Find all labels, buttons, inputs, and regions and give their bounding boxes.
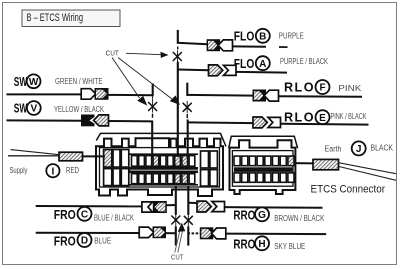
svg-text:CUT: CUT [171, 253, 184, 261]
tall pin right group bottom [201, 170, 209, 187]
left block small pins bottom row [132, 174, 195, 184]
right block inner outline [232, 151, 293, 187]
wire RLO F right segment [279, 95, 363, 98]
wire SW W right segment to vertical A [107, 94, 154, 96]
svg-text:PURPLE / BLACK: PURPLE / BLACK [280, 57, 329, 66]
svg-text:RRO: RRO [233, 209, 255, 223]
CUT pointer line pair to bottom X marks [175, 223, 186, 253]
wire FLO B right segment [233, 45, 267, 47]
tall pin [121, 150, 129, 168]
node FRO D label [54, 233, 92, 248]
svg-text:PURPLE: PURPLE [279, 31, 304, 40]
vertical wire B thin cut section [177, 50, 179, 62]
Supply input diagonal wire [11, 150, 59, 155]
svg-text:FLO: FLO [234, 29, 255, 43]
svg-text:CUT: CUT [106, 49, 120, 57]
svg-text:SW: SW [14, 102, 28, 116]
right block mid separator band [234, 167, 293, 172]
tall pin [113, 150, 120, 168]
wire RLO F left segment [187, 94, 254, 97]
node FLO A label [234, 56, 270, 71]
connector symbol SW W (white pentagon + black box with hatch arrow, pointing right) [81, 88, 108, 100]
Earth wire from connector [295, 162, 313, 164]
wire FRO D stub to vertical D [164, 232, 177, 234]
wire FRO D horizontal [36, 232, 140, 234]
left block lid line [96, 133, 226, 146]
tall pin lower row [113, 169, 120, 186]
ECU connector left block shell [96, 138, 223, 196]
svg-text:SKY BLUE: SKY BLUE [274, 242, 305, 251]
cut mark X on wire E [184, 216, 193, 225]
wire FLO A left segment [178, 69, 209, 72]
tall pin right group top [201, 151, 209, 168]
svg-text:B – ETCS Wiring: B – ETCS Wiring [27, 12, 84, 24]
right block pins bottom row [234, 173, 294, 182]
cut mark X on wire A [148, 102, 157, 111]
tall pin lower row [104, 169, 112, 186]
connector symbol FRO C (white bracket + black hatch box, pointing left) [142, 201, 167, 213]
cut mark X on wire B [173, 52, 182, 61]
node SW V label [14, 101, 41, 116]
node I label (RED) [46, 164, 59, 177]
svg-text:PINK / BLACK: PINK / BLACK [331, 112, 368, 121]
connector symbol RRO H (black hatch box + white pentagon, pointing left) [200, 227, 226, 239]
connector symbol RLO E (hatched pentagon + white bracket, pointing right) [253, 117, 281, 128]
wire from splice box to connector [83, 155, 106, 157]
right block pins top row [234, 156, 294, 166]
svg-text:RLO: RLO [284, 81, 314, 95]
node FLO B label [234, 29, 270, 44]
cut mark X on wire C [183, 103, 192, 112]
tall pin lower row [121, 169, 129, 186]
vertical wire B lower section into connector [177, 62, 179, 157]
tall pin right group bottom [210, 170, 218, 187]
tall pin right group top [210, 151, 218, 168]
vertical wire D lower section [175, 227, 177, 246]
wire FRO C horizontal [36, 205, 142, 207]
CUT pointer arrow to X on wire B [126, 52, 169, 58]
wire RLO E right segment [281, 123, 369, 126]
svg-text:GREEN / WHITE: GREEN / WHITE [55, 77, 103, 86]
svg-text:E: E [319, 113, 326, 124]
left block small pins top row [132, 156, 195, 167]
vertical wire E from connector [187, 186, 189, 215]
wire RRO H stub from vertical E [188, 232, 201, 234]
svg-text:RLO: RLO [284, 110, 314, 124]
node SW W label [14, 74, 41, 89]
vertical wire A dash below cut [152, 114, 154, 118]
node RLO E label [284, 110, 330, 124]
supply pin (hatched tall) [104, 150, 112, 168]
svg-text:FLO: FLO [234, 57, 255, 71]
wire SW V right segment to vertical A [107, 120, 153, 122]
vertical wire C thin cut section [186, 101, 188, 113]
vertical wire A thin cut section [152, 96, 154, 112]
vertical wire A upper stub [152, 83, 154, 96]
right block lid line [229, 136, 298, 148]
connector symbol FLO A (hatched pentagon + white bracket, pointing right) [209, 65, 237, 76]
svg-text:Earth: Earth [325, 144, 342, 153]
CUT pointer arrow to X on wire C [118, 58, 180, 105]
earth wire diagonal pair to border [339, 163, 397, 174]
svg-text:V: V [30, 104, 37, 115]
wire RRO H right segment [222, 233, 327, 236]
left block mid separator band [130, 167, 199, 173]
vertical wire A lower section into connector [151, 121, 153, 157]
svg-text:FRO: FRO [54, 208, 76, 222]
svg-text:J: J [356, 144, 362, 155]
node RRO H label [233, 236, 269, 251]
svg-text:RED: RED [66, 166, 79, 175]
svg-text:Supply: Supply [10, 166, 28, 175]
svg-text:I: I [52, 166, 55, 177]
svg-text:ETCS Connector: ETCS Connector [311, 183, 386, 195]
cut mark X on wire D [171, 216, 180, 225]
wire RRO G stub from vertical E [188, 202, 198, 204]
wire RLO E left segment [188, 121, 254, 124]
node RLO F label [284, 80, 330, 95]
svg-text:FRO: FRO [54, 234, 76, 248]
left block pin frame lines [130, 153, 199, 155]
Supply input horizontal wire [8, 155, 60, 157]
svg-text:C: C [81, 210, 88, 221]
wire FLO A right segment [237, 71, 288, 74]
svg-text:BLUE: BLUE [94, 237, 111, 246]
wire SW W horizontal [7, 93, 83, 95]
vertical wire D from connector [175, 186, 177, 215]
vertical wire D thin cut section [175, 214, 177, 227]
wire RRO G right segment [223, 206, 323, 209]
connector symbol SW V (black box with notch + hatched pentagon, pointing left) [81, 115, 109, 127]
svg-text:A: A [259, 59, 266, 70]
wire FLO B left segment [177, 43, 208, 45]
wire SW V horizontal [7, 119, 83, 121]
title box B - ETCS Wiring [22, 10, 120, 27]
svg-text:D: D [81, 236, 88, 247]
svg-text:W: W [29, 77, 39, 88]
vertical wire C dash below cut [186, 114, 188, 118]
node J label (BLACK) [352, 141, 366, 155]
connector symbol RRO G (hatched pentagon + white bracket, pointing right) [197, 201, 225, 212]
svg-text:PINK: PINK [338, 84, 362, 93]
svg-text:F: F [319, 83, 325, 94]
node RRO G label [233, 207, 269, 222]
svg-text:BLUE / BLACK: BLUE / BLACK [94, 213, 135, 222]
CUT pointer arrow to X on wire A [112, 58, 147, 106]
vertical wire C lower section into connector [187, 120, 189, 158]
ECU connector right block shell [230, 140, 296, 194]
svg-text:BLACK: BLACK [371, 144, 394, 153]
connector symbol FRO D (white pentagon + black box with hatch arrow, pointing right) [139, 226, 166, 238]
left block inner outline [100, 148, 220, 187]
svg-text:H: H [258, 239, 265, 250]
connector symbol RLO F (black hatch box + white pentagon, pointing left) [253, 90, 279, 102]
earth splice box (hatched) [313, 159, 339, 169]
vertical wire E thin cut section [187, 214, 189, 227]
connector symbol FLO B (black hatch box + white pentagon, pointing left) [207, 39, 233, 51]
wire FRO C stub to vertical D [166, 204, 177, 206]
svg-text:YELLOW / BLACK: YELLOW / BLACK [54, 105, 105, 114]
splice box on supply wire (hatched) [59, 152, 83, 161]
wire FLO B faded continuation dash [279, 46, 288, 48]
svg-text:SW: SW [14, 75, 28, 89]
vertical wire E lower section [187, 227, 189, 246]
vertical wire C upper stub [186, 83, 188, 96]
vertical wire B dash below elbow [177, 47, 179, 50]
node FRO C label [54, 207, 92, 222]
svg-text:BROWN / BLACK: BROWN / BLACK [274, 214, 325, 223]
svg-text:B: B [259, 32, 266, 43]
svg-text:RRO: RRO [233, 238, 255, 252]
svg-text:G: G [258, 210, 266, 221]
vertical wire B upper stub with FLO B elbow [177, 30, 179, 44]
